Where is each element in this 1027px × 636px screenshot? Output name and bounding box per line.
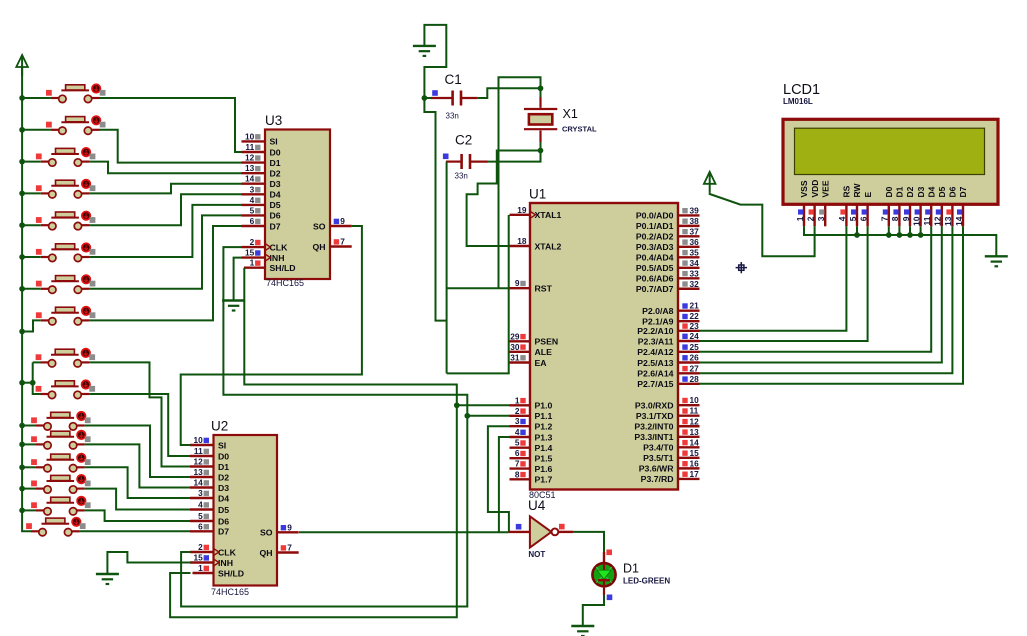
push button top-1 [46, 84, 106, 102]
svg-text:11: 11 [690, 406, 699, 416]
svg-text:5: 5 [250, 205, 255, 215]
svg-text:P3.4/T0: P3.4/T0 [643, 443, 674, 453]
push button top-6 [36, 243, 96, 261]
wire LCD D0-D3 to bus [889, 226, 921, 235]
NOT gate U4 [509, 498, 574, 559]
svg-text:LCD1: LCD1 [783, 82, 820, 98]
svg-text:D1: D1 [623, 562, 639, 576]
svg-text:P0.6/AD6: P0.6/AD6 [636, 274, 674, 284]
svg-text:SO: SO [260, 528, 273, 538]
svg-text:5: 5 [515, 438, 520, 448]
svg-text:24: 24 [690, 331, 700, 341]
node bus junctions [854, 232, 923, 238]
svg-text:P1.6: P1.6 [535, 464, 553, 474]
svg-text:3: 3 [816, 216, 826, 221]
svg-text:LM016L: LM016L [783, 97, 813, 106]
wire button bottom-6 to U2 D5 [85, 489, 191, 510]
svg-text:P3.0/RXD: P3.0/RXD [635, 401, 674, 411]
push button bottom-5 [31, 454, 91, 472]
svg-text:11: 11 [194, 446, 203, 456]
svg-text:26: 26 [690, 353, 700, 363]
svg-text:SO: SO [313, 221, 326, 231]
svg-text:31: 31 [510, 353, 520, 363]
svg-text:7: 7 [515, 459, 520, 469]
node SH-LD/P1.0 junction [454, 402, 460, 408]
wire D1 to ground [583, 595, 604, 626]
svg-text:18: 18 [517, 236, 527, 246]
svg-text:1: 1 [250, 258, 255, 268]
svg-text:U1: U1 [529, 187, 546, 202]
pin square D1 cathode [607, 595, 613, 601]
capacitor C2 [443, 133, 488, 181]
wire U3 INH to ground [234, 258, 242, 301]
microcontroller U1 80C51 [510, 187, 700, 501]
svg-text:RS: RS [842, 185, 852, 197]
svg-text:D6: D6 [270, 211, 281, 221]
svg-text:12: 12 [933, 216, 943, 226]
svg-text:CLK: CLK [218, 547, 237, 557]
push button bottom-1 [36, 349, 96, 367]
svg-text:39: 39 [690, 205, 700, 215]
svg-text:19: 19 [517, 205, 527, 215]
wire LCD ground bus [804, 226, 996, 256]
svg-text:14: 14 [245, 174, 255, 184]
svg-text:34: 34 [690, 258, 700, 268]
svg-text:E: E [863, 192, 873, 198]
svg-text:17: 17 [690, 469, 700, 479]
svg-text:2: 2 [198, 542, 203, 552]
wire C2 left down [446, 162, 448, 374]
wire VCC rail taps bottom group [19, 362, 40, 513]
svg-text:1: 1 [198, 563, 203, 573]
svg-text:33n: 33n [446, 112, 459, 121]
svg-text:ALE: ALE [535, 347, 553, 357]
wire VCC rail taps top group [19, 95, 51, 334]
wire button bottom-5 to U2 D4 [85, 467, 191, 498]
svg-text:D0: D0 [218, 451, 229, 461]
svg-text:5: 5 [848, 216, 858, 221]
wire XTAL1 loop to U1 [499, 77, 541, 288]
svg-text:33: 33 [690, 268, 700, 278]
svg-text:38: 38 [690, 216, 700, 226]
wire power to LCD VDD [710, 193, 815, 256]
svg-text:29: 29 [510, 331, 520, 341]
svg-text:PSEN: PSEN [535, 337, 559, 347]
svg-text:3: 3 [198, 488, 203, 498]
wire button top-1 to U3 D0 [100, 98, 242, 152]
node crystal bottom junction [538, 148, 544, 154]
svg-text:25: 25 [690, 342, 700, 352]
svg-text:5: 5 [198, 511, 203, 521]
svg-text:32: 32 [690, 279, 700, 289]
svg-text:XTAL1: XTAL1 [535, 210, 562, 220]
ground D1 [571, 626, 594, 636]
svg-text:INH: INH [218, 558, 233, 568]
svg-text:12: 12 [690, 416, 700, 426]
wire button top-3 to U3 D2 [89, 162, 241, 174]
push button top-5 [36, 212, 96, 230]
svg-text:9: 9 [287, 522, 292, 532]
svg-text:P0.2/AD2: P0.2/AD2 [636, 232, 674, 242]
capacitor C1 [424, 72, 477, 121]
wire button top-8 to U3 D7 [89, 226, 241, 320]
svg-text:3: 3 [250, 184, 255, 194]
svg-text:P1.7: P1.7 [535, 475, 553, 485]
wire button top-4 to U3 D3 [89, 184, 241, 194]
svg-text:7: 7 [340, 237, 345, 247]
svg-text:12: 12 [245, 153, 255, 163]
wire U3 SO to U2 SI [181, 226, 362, 445]
svg-text:30: 30 [510, 342, 520, 352]
svg-text:D7: D7 [218, 527, 229, 537]
svg-text:LED-GREEN: LED-GREEN [623, 577, 670, 586]
wire C1 to XTAL1 node [478, 88, 541, 98]
svg-text:28: 28 [690, 374, 700, 384]
svg-text:D5: D5 [218, 505, 229, 515]
push button top-7 [36, 275, 96, 293]
svg-text:9: 9 [340, 216, 345, 226]
push button bottom-3 [31, 412, 91, 430]
svg-text:U4: U4 [528, 498, 546, 513]
svg-text:35: 35 [690, 247, 700, 257]
LED D1 LED-GREEN [592, 552, 670, 595]
svg-text:33n: 33n [455, 172, 468, 181]
LCD display LCD1 LM016L [783, 82, 998, 226]
svg-text:P2.3/A11: P2.3/A11 [638, 336, 674, 346]
svg-text:RW: RW [852, 183, 862, 198]
power symbol VDD at LCD [704, 172, 716, 193]
svg-text:27: 27 [690, 363, 700, 373]
wire button bottom-4 to U2 D3 [85, 444, 191, 487]
svg-text:D2: D2 [218, 472, 229, 482]
svg-text:14: 14 [954, 216, 964, 226]
svg-text:X1: X1 [563, 107, 578, 121]
push button top-3 [36, 148, 96, 166]
svg-text:P3.6/WR: P3.6/WR [639, 464, 674, 474]
wire U1 P2.2 to LCD RS [700, 226, 847, 330]
power symbol VCC top-left [16, 55, 28, 76]
wire net SH/LD (U3-U2-P1.0) [170, 268, 457, 618]
svg-text:1: 1 [515, 395, 520, 405]
svg-text:VSS: VSS [799, 180, 809, 197]
wire button bottom-1 to U2 D1 [89, 362, 190, 466]
svg-text:VDD: VDD [810, 180, 820, 198]
svg-text:D2: D2 [905, 186, 915, 197]
svg-text:P2.5/A13: P2.5/A13 [637, 358, 673, 368]
svg-text:P1.0: P1.0 [535, 401, 553, 411]
svg-text:P0.5/AD5: P0.5/AD5 [636, 263, 674, 273]
svg-text:21: 21 [690, 301, 700, 311]
svg-text:P2.6/A14: P2.6/A14 [637, 369, 673, 379]
shift register U3 74HC165 [242, 113, 352, 288]
wire C2 to crystal bottom [488, 151, 541, 162]
wire button bottom-2 to U2 D0 [89, 394, 190, 456]
wire button top-2 to U3 D1 [100, 130, 242, 163]
svg-text:4: 4 [198, 500, 203, 510]
node C1-ground junction [422, 95, 428, 101]
svg-text:QH: QH [312, 242, 325, 252]
svg-text:RST: RST [535, 284, 553, 294]
svg-text:22: 22 [690, 311, 700, 321]
svg-text:6: 6 [515, 448, 520, 458]
push button top-4 [36, 180, 96, 198]
svg-text:D7: D7 [958, 186, 968, 197]
svg-text:C1: C1 [445, 72, 462, 87]
svg-text:P3.5/T1: P3.5/T1 [643, 453, 674, 463]
svg-text:P0.0/AD0: P0.0/AD0 [636, 211, 674, 221]
svg-text:XTAL2: XTAL2 [535, 241, 562, 251]
svg-text:2: 2 [250, 237, 255, 247]
svg-text:D7: D7 [270, 221, 281, 231]
wire P1.1 branch [467, 415, 509, 417]
svg-text:15: 15 [690, 448, 700, 458]
ground top (crystal) [413, 46, 436, 56]
svg-text:U3: U3 [265, 113, 282, 128]
wire VCC rail left [22, 67, 31, 531]
svg-text:P2.1/A9: P2.1/A9 [642, 317, 674, 327]
svg-text:EA: EA [535, 358, 548, 368]
svg-text:10: 10 [245, 131, 255, 141]
svg-text:P2.7/A15: P2.7/A15 [637, 379, 673, 389]
svg-text:D3: D3 [270, 179, 281, 189]
svg-text:7: 7 [287, 543, 292, 553]
svg-text:P2.2/A10: P2.2/A10 [637, 326, 673, 336]
svg-text:1: 1 [795, 216, 805, 221]
svg-text:6: 6 [858, 216, 868, 221]
svg-text:P1.1: P1.1 [535, 411, 553, 421]
svg-text:P3.1/TXD: P3.1/TXD [636, 411, 674, 421]
svg-text:12: 12 [193, 457, 203, 467]
svg-text:SI: SI [270, 137, 278, 147]
origin marker [736, 262, 747, 273]
shift register U2 74HC165 [190, 419, 299, 598]
svg-text:U2: U2 [211, 419, 228, 434]
wire U1 P2.7 to LCD D7 [700, 226, 964, 383]
wire button bottom-3 to U2 D2 [85, 426, 191, 478]
push button bottom-2 [36, 380, 96, 398]
svg-text:D1: D1 [270, 158, 281, 168]
svg-text:14: 14 [690, 437, 700, 447]
svg-text:6: 6 [250, 216, 255, 226]
pin square D1 anode [606, 550, 612, 556]
svg-text:D4: D4 [270, 190, 281, 200]
push button bottom-7 [31, 497, 91, 515]
wire ground to C1 node [424, 25, 446, 98]
svg-text:15: 15 [193, 553, 203, 563]
svg-text:D4: D4 [926, 186, 936, 197]
svg-text:CLK: CLK [270, 242, 289, 252]
svg-text:8: 8 [515, 469, 520, 479]
wire P1.2 to U4 input [488, 426, 510, 532]
svg-text:D0: D0 [270, 147, 281, 157]
svg-text:P0.4/AD4: P0.4/AD4 [636, 253, 674, 263]
svg-text:D1: D1 [895, 186, 905, 197]
svg-text:SI: SI [218, 440, 226, 450]
wire button bottom-8 to U2 D7 [80, 530, 191, 532]
svg-text:8: 8 [890, 216, 900, 221]
svg-text:13: 13 [690, 427, 700, 437]
wire button top-6 to U3 D5 [89, 205, 241, 257]
svg-text:P1.3: P1.3 [535, 432, 553, 442]
svg-text:13: 13 [193, 467, 203, 477]
svg-text:D5: D5 [270, 200, 281, 210]
push button top-8 [36, 307, 96, 325]
svg-text:P1.5: P1.5 [535, 454, 553, 464]
svg-text:D6: D6 [948, 186, 958, 197]
wire U1 P2.4 to LCD D4 [700, 226, 932, 351]
svg-text:74HC165: 74HC165 [266, 278, 304, 288]
wire U4 output to D1 [573, 532, 604, 552]
svg-text:CRYSTAL: CRYSTAL [562, 125, 597, 134]
svg-text:23: 23 [690, 321, 700, 331]
wire button top-5 to U3 D4 [89, 194, 241, 225]
wire U1 P2.6 to LCD D6 [700, 226, 953, 373]
svg-text:2: 2 [515, 406, 520, 416]
svg-text:D3: D3 [916, 186, 926, 197]
crystal X1 [524, 88, 597, 150]
svg-text:4: 4 [515, 427, 520, 437]
svg-text:P3.2/INT0: P3.2/INT0 [634, 422, 673, 432]
svg-text:D0: D0 [884, 186, 894, 197]
wire U2 INH to ground [107, 552, 190, 574]
svg-text:11: 11 [922, 216, 932, 225]
svg-text:D4: D4 [218, 493, 229, 503]
svg-text:P0.7/AD7: P0.7/AD7 [636, 284, 674, 294]
push button top-2 [46, 116, 106, 134]
svg-text:6: 6 [198, 521, 203, 531]
svg-text:9: 9 [515, 278, 520, 288]
svg-text:D5: D5 [937, 186, 947, 197]
wire ground net to EA column [447, 215, 509, 373]
svg-text:D6: D6 [218, 516, 229, 526]
svg-text:10: 10 [911, 216, 921, 226]
wire U2 SO to P1.3 [299, 531, 509, 533]
svg-text:P3.3/INT1: P3.3/INT1 [634, 432, 673, 442]
svg-text:VEE: VEE [820, 180, 830, 197]
svg-text:P1.4: P1.4 [535, 443, 553, 453]
push button bottom-6 [31, 475, 91, 493]
svg-text:13: 13 [245, 163, 255, 173]
svg-text:4: 4 [837, 216, 847, 221]
svg-text:10: 10 [690, 395, 700, 405]
svg-text:P3.7/RD: P3.7/RD [641, 474, 674, 484]
svg-text:11: 11 [245, 142, 254, 152]
svg-text:NOT: NOT [528, 550, 545, 559]
svg-text:9: 9 [901, 216, 911, 221]
svg-text:16: 16 [690, 458, 700, 468]
svg-text:4: 4 [250, 195, 255, 205]
wire to RST [447, 287, 510, 289]
svg-text:P0.1/AD1: P0.1/AD1 [636, 221, 674, 231]
node CLK/P1.1 junction [464, 413, 470, 419]
wire U1 P2.5 to LCD D5 [700, 226, 942, 362]
svg-text:13: 13 [943, 216, 953, 226]
push button bottom-4 [31, 431, 91, 449]
svg-text:P2.0/A8: P2.0/A8 [642, 306, 674, 316]
wire U1 P2.3 to LCD E [700, 226, 868, 341]
svg-text:37: 37 [690, 226, 700, 236]
ground LCD bus [985, 256, 1008, 266]
ground U3 INH [222, 301, 245, 311]
wire button top-7 to U3 D6 [89, 215, 241, 288]
svg-text:P0.3/AD3: P0.3/AD3 [636, 242, 674, 252]
wire ground net loop [424, 98, 446, 321]
svg-text:7: 7 [880, 216, 890, 221]
svg-text:D1: D1 [218, 462, 229, 472]
wire LCD RW to bus [856, 226, 858, 235]
wire button bottom-7 to U2 D6 [85, 510, 191, 521]
svg-text:74HC165: 74HC165 [211, 587, 249, 597]
svg-text:10: 10 [193, 435, 203, 445]
svg-text:36: 36 [690, 237, 700, 247]
wire net CLK (U3-U2-P1.1) [181, 247, 467, 606]
wire P1.3 to SO net [499, 437, 510, 532]
push button bottom-8 [26, 518, 86, 536]
svg-text:INH: INH [270, 253, 285, 263]
svg-text:QH: QH [259, 548, 272, 558]
svg-text:C2: C2 [455, 133, 472, 148]
svg-text:P1.2: P1.2 [535, 422, 553, 432]
svg-text:P2.4/A12: P2.4/A12 [637, 347, 673, 357]
wire crystal bottom to XTAL2 [467, 151, 541, 247]
svg-text:D2: D2 [270, 169, 281, 179]
ground U2 INH [96, 574, 119, 584]
svg-text:SH/LD: SH/LD [218, 568, 244, 578]
wire P1.0 branch [457, 404, 510, 406]
svg-text:D3: D3 [218, 483, 229, 493]
svg-text:14: 14 [193, 478, 203, 488]
svg-text:2: 2 [805, 216, 815, 221]
node crystal top junction [538, 85, 544, 91]
svg-text:SH/LD: SH/LD [270, 263, 296, 273]
svg-text:3: 3 [515, 416, 520, 426]
svg-text:15: 15 [245, 248, 255, 258]
